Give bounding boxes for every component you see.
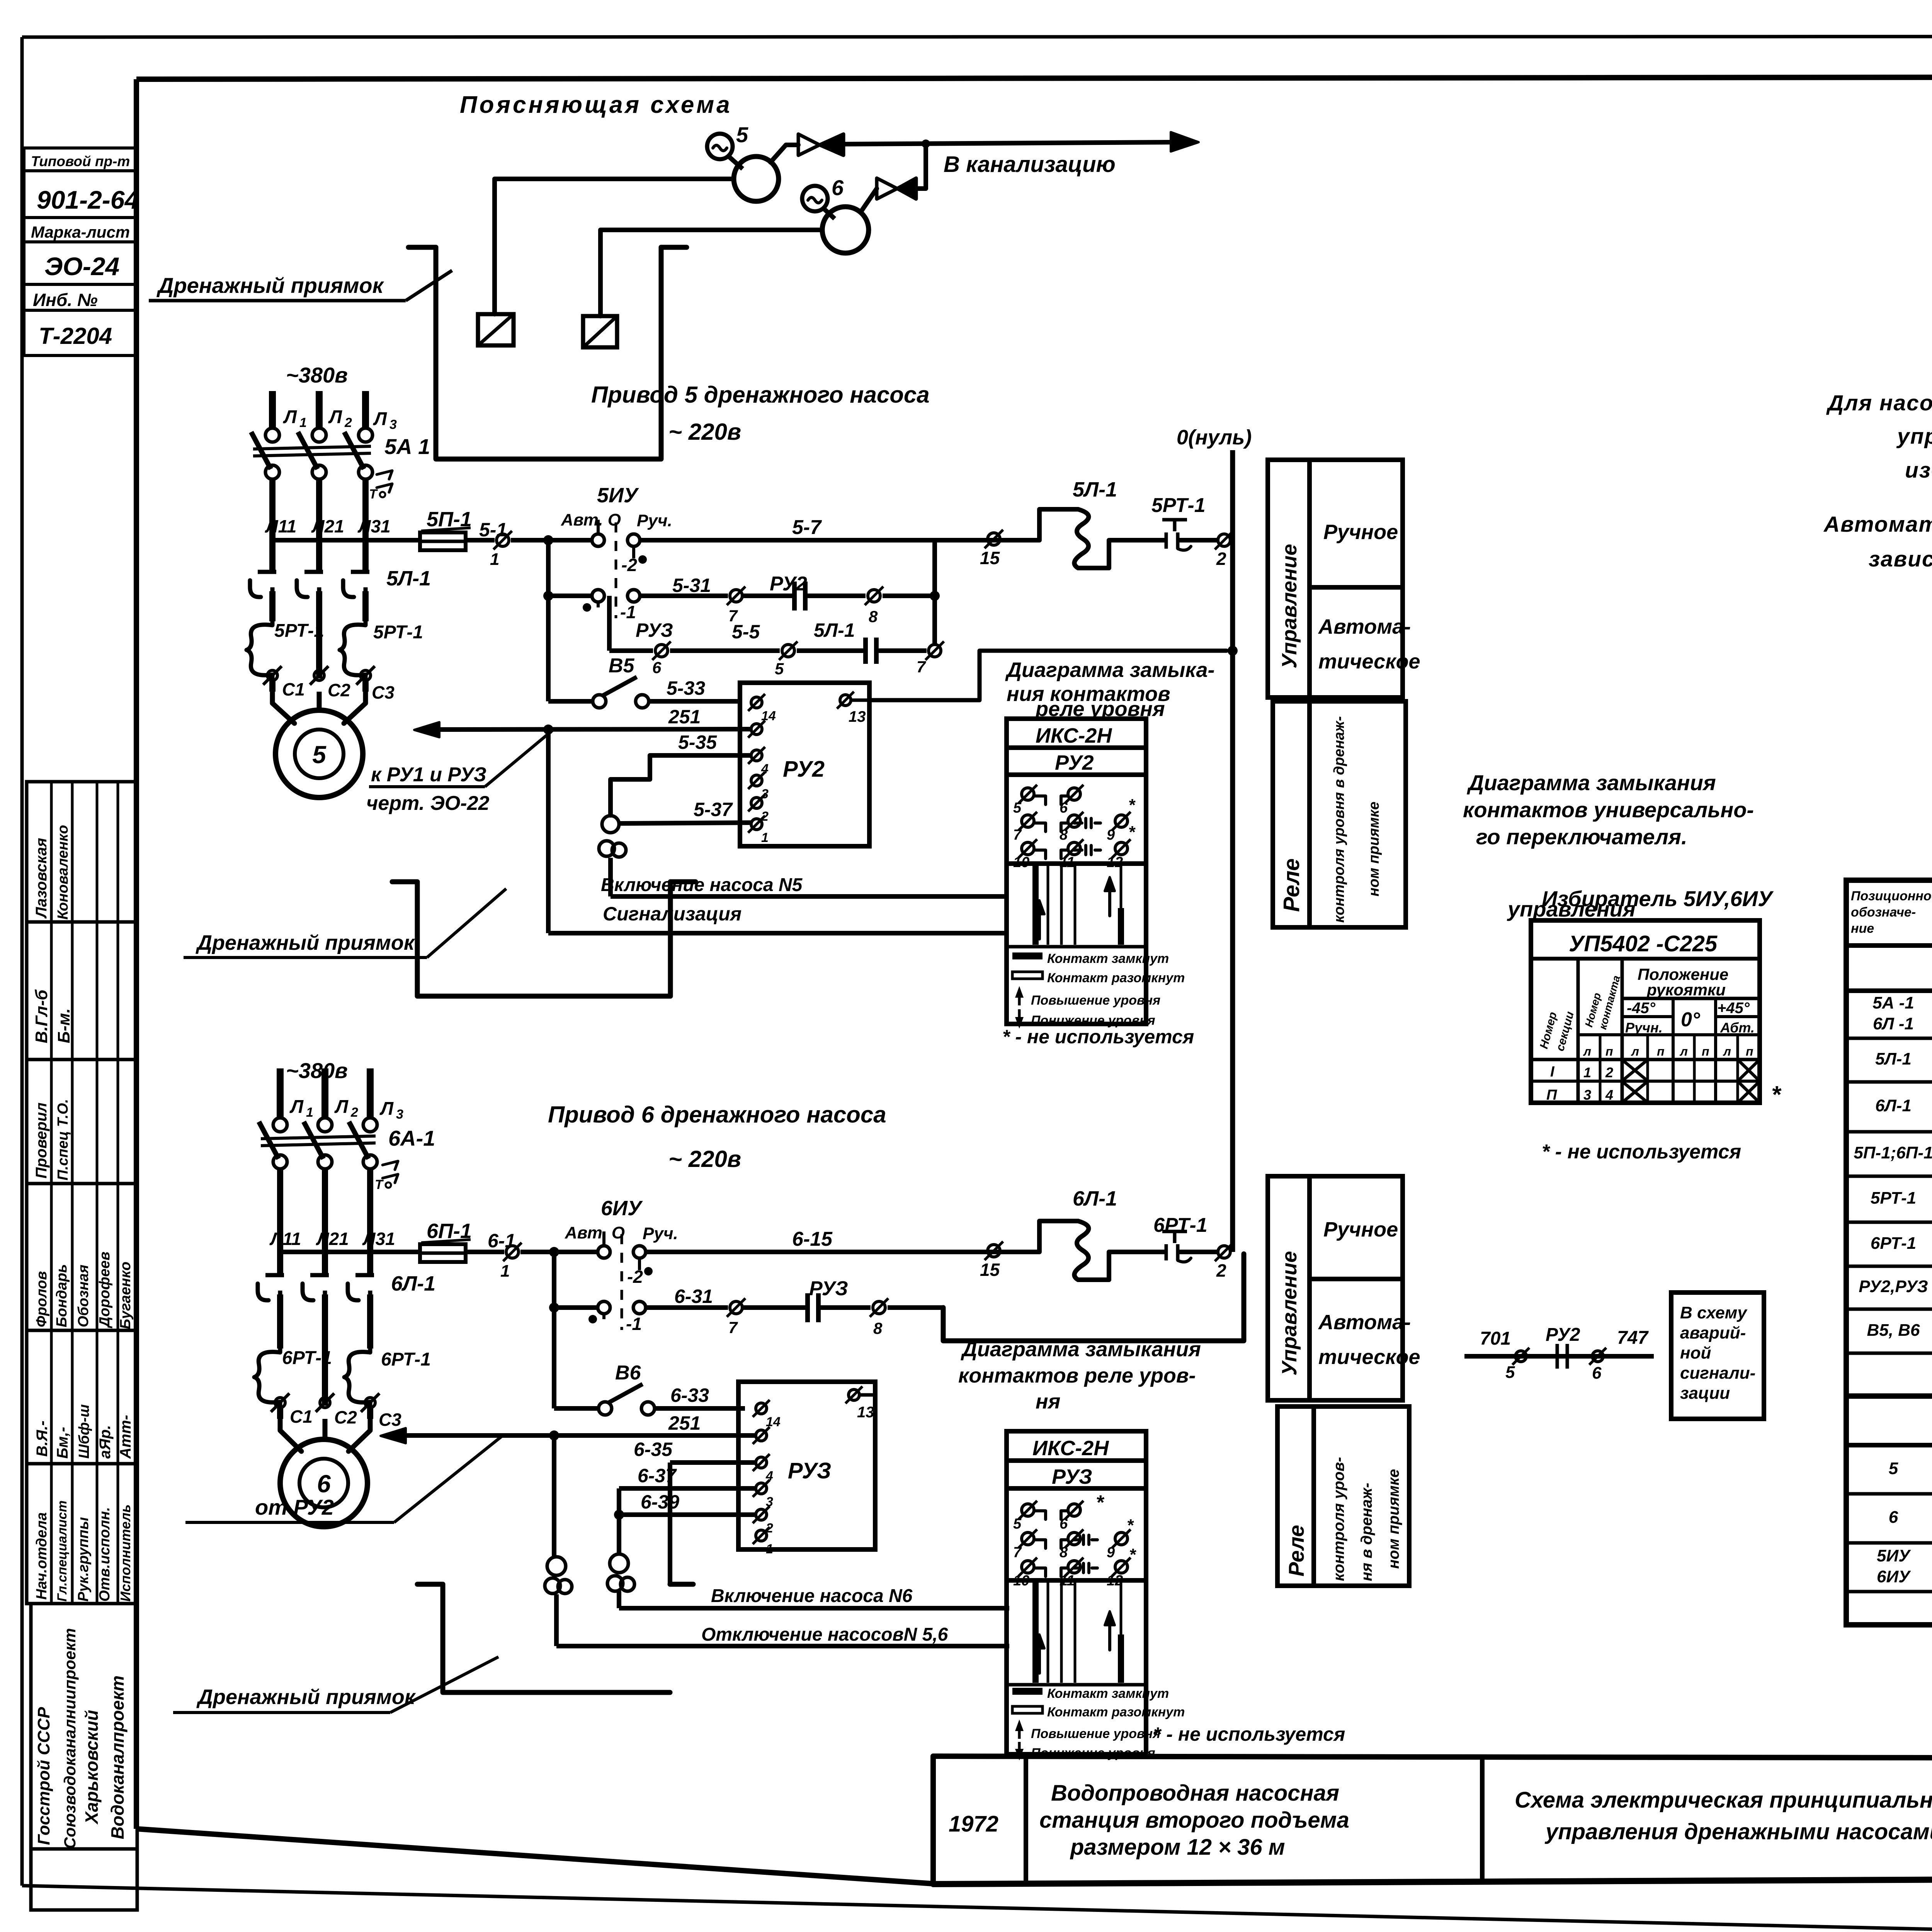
junction null and pin13 link drive 5 xyxy=(1228,646,1238,656)
terminal 2 drive 5 (to null) xyxy=(1215,531,1233,569)
РУ2 pins left xyxy=(748,694,776,845)
svg-text:1972: 1972 xyxy=(949,1811,998,1837)
fuse 5П-1 xyxy=(420,508,472,550)
svg-text:5-7: 5-7 xyxy=(792,516,822,539)
wire 5-1 to selector xyxy=(511,538,592,543)
svg-text:Обозная: Обозная xyxy=(75,1265,92,1327)
svg-text:7: 7 xyxy=(1013,827,1022,843)
svg-text:РУ2: РУ2 xyxy=(1055,751,1094,774)
svg-text:5П-1;6П-1: 5П-1;6П-1 xyxy=(1854,1143,1932,1162)
pipe pump5 to sewer xyxy=(770,145,798,162)
svg-text:Отключение насосовN 5,6: Отключение насосовN 5,6 xyxy=(701,1624,948,1645)
pump 6 circle xyxy=(822,207,869,253)
svg-text:6-1: 6-1 xyxy=(488,1230,515,1252)
svg-text:С2: С2 xyxy=(334,1407,357,1427)
svg-text:тическое: тическое xyxy=(1318,1345,1420,1369)
РУ2 pin 13 xyxy=(837,692,869,725)
svg-text:Л: Л xyxy=(373,409,387,429)
svg-text:5-35: 5-35 xyxy=(678,731,717,753)
electrode circles pair B drive 6 xyxy=(607,1554,634,1591)
svg-text:6РТ-1: 6РТ-1 xyxy=(1871,1234,1916,1253)
svg-text:6-35: 6-35 xyxy=(634,1439,673,1460)
stamp field 901-2-64 xyxy=(24,171,139,218)
drain pit drive 6 xyxy=(417,1584,693,1692)
svg-text:Ручн.: Ручн. xyxy=(1625,1020,1663,1036)
wire fuse to contact 6-1 xyxy=(466,1250,504,1254)
motor terminals C1 C2 C3 drive 5 xyxy=(263,666,395,702)
svg-text:В5, В6: В5, В6 xyxy=(1867,1321,1920,1340)
pipe pump5 suction xyxy=(495,179,734,314)
drain pit drive 5 xyxy=(392,882,696,996)
svg-text:рукоятки: рукоятки xyxy=(1646,981,1726,999)
svg-text:Шбф-ш: Шбф-ш xyxy=(76,1404,92,1459)
svg-text:5: 5 xyxy=(312,741,327,769)
svg-text:5ИУ: 5ИУ xyxy=(597,484,639,507)
electrode circles pair A drive 6 xyxy=(545,1435,572,1594)
svg-text:5РТ-1: 5РТ-1 xyxy=(1151,494,1206,517)
svg-text:Т-2204: Т-2204 xyxy=(39,323,112,349)
svg-text:РУ2: РУ2 xyxy=(1546,1325,1580,1345)
svg-text:ной: ной xyxy=(1680,1344,1711,1362)
svg-text:5: 5 xyxy=(736,122,748,147)
svg-text:5Л-1: 5Л-1 xyxy=(814,619,855,641)
stamp field Инв № xyxy=(24,284,135,310)
pump 5 circle xyxy=(734,156,779,201)
ИКС-2Н box drive 6 xyxy=(1007,1431,1146,1754)
wire 6-15 xyxy=(646,1228,1039,1252)
svg-text:Дренажный приямок: Дренажный приямок xyxy=(196,931,415,954)
svg-text:5РТ-1: 5РТ-1 xyxy=(373,622,423,643)
null vertical wire xyxy=(1230,450,1235,1252)
check valve 2 xyxy=(877,178,916,199)
svg-text:Позиционное: Позиционное xyxy=(1851,889,1932,903)
svg-text:ня: ня xyxy=(1036,1390,1060,1413)
РУЗ pins left xyxy=(753,1400,781,1556)
control bus drive 5 xyxy=(272,538,420,543)
svg-text:5: 5 xyxy=(775,660,784,678)
contact terminal 8 row2 drive 6 xyxy=(870,1298,943,1337)
wrap wire row2 to null drive 6 xyxy=(943,1254,1244,1341)
svg-text:10: 10 xyxy=(1013,854,1029,871)
pump 6 motor symbol xyxy=(802,175,844,219)
РУЗ contact diagram circles xyxy=(1013,1492,1136,1589)
svg-text:станция второго подъема: станция второго подъема xyxy=(1039,1808,1349,1833)
svg-text:Контакт замкнут: Контакт замкнут xyxy=(1047,951,1169,966)
junction drive6 row1 xyxy=(549,1247,559,1257)
stamp field Марка-лист xyxy=(24,218,135,242)
drain pit (explanatory) xyxy=(408,247,687,459)
svg-text:черт. ЭО-22: черт. ЭО-22 xyxy=(366,792,490,815)
stamp field ЭО-24 xyxy=(24,242,135,284)
svg-text:251: 251 xyxy=(668,1412,701,1434)
svg-text:6Л-1: 6Л-1 xyxy=(1073,1187,1117,1210)
svg-text:ном приямке: ном приямке xyxy=(1366,802,1382,896)
wire 5-7 xyxy=(640,516,1039,540)
svg-text:-1: -1 xyxy=(620,602,636,622)
svg-text:Проверил: Проверил xyxy=(33,1102,50,1179)
РУ2 contact diagram circles xyxy=(1013,785,1136,871)
svg-text:Харьковский: Харьковский xyxy=(82,1710,102,1825)
svg-text:л: л xyxy=(1723,1044,1731,1058)
svg-text:Л: Л xyxy=(379,1099,394,1119)
svg-text:Схема электрическая принц: Схема электрическая принципиальная xyxy=(1515,1787,1932,1813)
table row 5Л-1 пускатель магнитный ПМЕ-212 xyxy=(1846,1049,1932,1082)
svg-text:Повышение уровня: Повышение уровня xyxy=(1031,993,1160,1008)
svg-text:6: 6 xyxy=(832,175,844,200)
svg-text:1: 1 xyxy=(490,550,499,569)
svg-text:Отв.исполн.: Отв.исполн. xyxy=(97,1507,113,1602)
thermal contact 5РТ-1 in control drive 5 xyxy=(1144,494,1217,550)
wire 6-35 xyxy=(634,1439,756,1584)
svg-text:-2: -2 xyxy=(627,1267,643,1287)
svg-text:В6: В6 xyxy=(615,1362,641,1384)
РУ2 legend xyxy=(1012,951,1185,1029)
svg-text:Авт. О: Авт. О xyxy=(561,510,621,529)
wire 6-1 to selector xyxy=(520,1250,598,1254)
svg-text:Типовой пр-т: Типовой пр-т xyxy=(31,153,130,169)
svg-text:9: 9 xyxy=(1107,827,1115,843)
svg-text:РУ2: РУ2 xyxy=(770,573,807,595)
parts table frame xyxy=(1846,880,1932,1625)
svg-text:Автома-: Автома- xyxy=(1318,615,1411,638)
svg-text:Л21: Л21 xyxy=(316,1229,349,1249)
svg-text:2: 2 xyxy=(344,415,352,430)
svg-text:Бондарь: Бондарь xyxy=(54,1264,70,1327)
svg-text:В.Я.-: В.Я.- xyxy=(34,1420,51,1457)
relay box РУЗ xyxy=(738,1382,875,1549)
svg-text:Дорофеев: Дорофеев xyxy=(97,1252,113,1328)
svg-text:~380в: ~380в xyxy=(286,363,348,387)
svg-text:Ручное: Ручное xyxy=(1323,520,1398,544)
selector switch 6ИУ xyxy=(565,1197,678,1334)
svg-text:РУЗ: РУЗ xyxy=(636,619,673,641)
wire 251 drive 6 with arrow xyxy=(381,1412,756,1443)
svg-text:л: л xyxy=(1631,1044,1639,1058)
svg-text:сигнали-: сигнали- xyxy=(1680,1364,1755,1383)
explanation paragraph 2 xyxy=(1823,512,1932,571)
svg-text:В.Гл-б: В.Гл-б xyxy=(32,989,51,1043)
svg-text:Нач.отдела: Нач.отдела xyxy=(34,1512,50,1600)
wire fuse to contact 5-1 xyxy=(466,538,495,543)
svg-text:Водоканалпроект: Водоканалпроект xyxy=(107,1675,128,1839)
svg-text:П.спец Т.О.: П.спец Т.О. xyxy=(55,1099,71,1180)
ИКС-2Н box drive 5 xyxy=(1007,719,1146,1024)
stamp block organization xyxy=(31,1604,137,1849)
svg-text:2: 2 xyxy=(1605,1065,1613,1080)
svg-text:РУ2: РУ2 xyxy=(783,757,825,782)
svg-text:Дренажный приямок: Дренажный приямок xyxy=(196,1685,416,1709)
svg-text:5РТ-1: 5РТ-1 xyxy=(1871,1189,1916,1207)
svg-text:5Л-1: 5Л-1 xyxy=(1875,1049,1912,1068)
stamp block roles xyxy=(27,1464,137,1604)
svg-text:1: 1 xyxy=(766,1542,773,1556)
svg-text:3: 3 xyxy=(396,1107,403,1122)
svg-text:Включение насоса N5: Включение насоса N5 xyxy=(601,875,803,895)
svg-text:2: 2 xyxy=(350,1105,358,1120)
РУЗ pin 13 xyxy=(845,1386,875,1421)
svg-text:С1: С1 xyxy=(290,1406,313,1427)
switch B6 xyxy=(554,1308,745,1415)
foot valve 2 xyxy=(583,316,617,347)
wire Отключение насосов N5,6 xyxy=(556,1594,1009,1646)
pipe sewer main with arrow xyxy=(844,132,1199,151)
svg-text:*: * xyxy=(1096,1492,1105,1514)
svg-text:-1: -1 xyxy=(626,1314,642,1334)
pipe pump6 suction xyxy=(600,230,822,316)
svg-text:5-5: 5-5 xyxy=(732,621,760,643)
svg-text:С2: С2 xyxy=(328,680,350,700)
svg-text:5ИУ: 5ИУ xyxy=(1877,1546,1911,1565)
wire 6-39 xyxy=(614,1491,756,1520)
svg-text:П: П xyxy=(1546,1087,1557,1103)
svg-text:6ИУ: 6ИУ xyxy=(1877,1567,1911,1586)
svg-text:0°: 0° xyxy=(1681,1009,1701,1031)
svg-text:Л21: Л21 xyxy=(311,516,344,536)
wire row2 from junction drive 6 xyxy=(549,1252,598,1313)
svg-text:6Л -1: 6Л -1 xyxy=(1873,1014,1914,1033)
svg-text:Рук.группы: Рук.группы xyxy=(75,1517,92,1602)
box В схему аварийной сигнализации xyxy=(1671,1293,1764,1419)
svg-text:Реле: Реле xyxy=(1284,1525,1308,1577)
svg-text:Руч.: Руч. xyxy=(637,511,672,530)
svg-text:701: 701 xyxy=(1480,1328,1511,1349)
stamp block checked xyxy=(27,1060,137,1184)
svg-text:+45°: +45° xyxy=(1717,1000,1750,1017)
svg-text:л: л xyxy=(1679,1044,1688,1058)
svg-text:С3: С3 xyxy=(379,1410,401,1430)
Реле контроля box drive 5 xyxy=(1273,701,1406,927)
svg-text:Абт.: Абт. xyxy=(1720,1020,1755,1036)
selector table УП5402-С225 xyxy=(1531,920,1782,1108)
svg-text:размером 12 × 36 м: размером 12 × 36 м xyxy=(1070,1835,1285,1860)
relay contact РУ2 xyxy=(742,573,866,611)
motor 5 xyxy=(276,710,363,798)
svg-text:7: 7 xyxy=(1013,1544,1022,1561)
explanation paragraph 1 xyxy=(1826,391,1932,483)
motor 6 xyxy=(280,1439,367,1527)
svg-text:Фролов: Фролов xyxy=(34,1271,50,1327)
wire 5-31 row xyxy=(640,575,728,596)
svg-text:ня в дренаж-: ня в дренаж- xyxy=(1358,1483,1375,1581)
phase wires to contactor drive 5 xyxy=(265,479,391,572)
svg-text:1: 1 xyxy=(1583,1065,1591,1080)
stamp block bottom empty xyxy=(31,1849,137,1910)
svg-text:ние: ние xyxy=(1851,921,1874,936)
svg-text:ном приямке: ном приямке xyxy=(1385,1469,1402,1569)
svg-text:управления : автоматическое и: управления : автоматическое и ручное, вы… xyxy=(1896,424,1932,449)
wire row2 from junction drive 5 xyxy=(543,540,592,601)
table empty row ЩСУ end xyxy=(1846,1393,1932,1399)
svg-text:п: п xyxy=(1657,1044,1665,1058)
svg-text:Для насосов NN5,6 предусм: Для насосов NN5,6 предусматривается два … xyxy=(1826,391,1932,415)
wire vertical into pit drive 5 and Сигнализация wire xyxy=(548,730,1007,933)
svg-text:Л11: Л11 xyxy=(265,516,296,536)
svg-text:контроля уровня в дренаж-: контроля уровня в дренаж- xyxy=(1331,716,1347,923)
title block drawing name xyxy=(1515,1787,1932,1844)
svg-text:В канализацию: В канализацию xyxy=(944,152,1116,177)
РУЗ stripes area xyxy=(1007,1580,1146,1685)
table row В5 В6 выключатель пакетный xyxy=(1846,1310,1932,1353)
table row 5А-1 6Л-1 автоматический выключатель xyxy=(1846,993,1932,1038)
callout от РУ2 xyxy=(185,1436,502,1522)
svg-text:5-1: 5-1 xyxy=(479,519,507,541)
label Дренажный приямок (top) xyxy=(149,270,452,301)
selector switch 5ИУ xyxy=(561,484,672,622)
table row 6 А02-32-2 xyxy=(1846,1498,1932,1543)
svg-text:5Л-1: 5Л-1 xyxy=(386,567,431,590)
svg-text:Привод 6 дренажного насос: Привод 6 дренажного насоса xyxy=(548,1102,886,1128)
Реле контроля box drive 6 xyxy=(1277,1406,1409,1586)
table row 6Л-1 ПМЕ-112 xyxy=(1846,1052,1932,1132)
svg-text:РУЗ: РУЗ xyxy=(788,1458,831,1483)
svg-text:Л: Л xyxy=(334,1097,349,1117)
svg-text:управления: управления xyxy=(1507,897,1636,921)
svg-text:Исполнитель: Исполнитель xyxy=(117,1504,133,1602)
contact terminal 8 row2 drive 5 xyxy=(865,587,935,626)
svg-text:аЯр.: аЯр. xyxy=(97,1425,114,1459)
svg-text:РУЗ: РУЗ xyxy=(809,1277,848,1300)
svg-text:от РУ2: от РУ2 xyxy=(255,1495,334,1519)
svg-text:ИКС-2Н: ИКС-2Н xyxy=(1036,724,1112,747)
wire 6-37 xyxy=(619,1465,756,1555)
svg-text:* - не используется: * - не используется xyxy=(1002,1026,1194,1048)
svg-text:В5: В5 xyxy=(609,655,635,677)
svg-text:Дренажный приямок: Дренажный приямок xyxy=(156,273,384,298)
svg-text:747: 747 xyxy=(1617,1328,1649,1348)
svg-text:ЭО-24: ЭО-24 xyxy=(44,252,119,281)
contactor main contacts 5Л-1 xyxy=(250,567,431,597)
svg-text:15: 15 xyxy=(980,1260,1000,1280)
svg-text:С3: С3 xyxy=(372,682,395,702)
svg-text:Авт. О: Авт. О xyxy=(565,1223,625,1242)
svg-text:8: 8 xyxy=(869,607,878,626)
diagram title Диаграмма замыкания (drive 6) xyxy=(958,1338,1201,1413)
title block frame xyxy=(933,1756,1932,1884)
svg-text:*: * xyxy=(1127,1516,1134,1535)
svg-text:Л: Л xyxy=(289,1097,304,1117)
svg-text:6-33: 6-33 xyxy=(670,1384,709,1406)
wire electrodes to stripes drive 5 (Включение насоса N5) xyxy=(611,858,1007,896)
circuit breaker 6А-1 xyxy=(259,1118,435,1192)
svg-text:5РТ-1: 5РТ-1 xyxy=(274,621,324,641)
svg-text:6: 6 xyxy=(317,1470,331,1498)
stamp block names xyxy=(27,1184,137,1330)
thermal relay elements 5РТ-1 drive 5 xyxy=(247,621,423,692)
svg-text:го переключателя.: го переключателя. xyxy=(1476,825,1687,849)
label Дренажный приямок drive 5 xyxy=(184,889,506,957)
svg-text:15: 15 xyxy=(980,548,1000,568)
switch B5 xyxy=(548,596,739,708)
svg-text:Привод 5 дренажного насоса: Привод 5 дренажного насоса xyxy=(591,382,930,408)
terminal 7 on junction vertical drive 5 xyxy=(917,641,944,676)
circuit breaker 5А1 xyxy=(251,428,430,502)
svg-text:УП5402 -С225: УП5402 -С225 xyxy=(1569,931,1718,956)
svg-text:~ 220в: ~ 220в xyxy=(668,1146,741,1172)
svg-text:* - не используется: * - не используется xyxy=(1153,1723,1345,1745)
svg-text:*: * xyxy=(1771,1082,1782,1108)
svg-text:п: п xyxy=(1605,1044,1613,1058)
stamp block signatures 2 xyxy=(27,1330,137,1464)
svg-text:Бм,-: Бм,- xyxy=(54,1427,71,1459)
svg-text:Диаграмма замыкания: Диаграмма замыкания xyxy=(1467,770,1716,795)
svg-text:обозначе-: обозначе- xyxy=(1851,905,1916,920)
diagram title Диаграмма замыкания (drive 5) xyxy=(1005,658,1214,721)
svg-text:л: л xyxy=(1583,1044,1591,1058)
stamp block surveyors xyxy=(27,782,137,922)
table row 6РТ-1 ТРН-8 xyxy=(1846,1234,1932,1266)
svg-text:1: 1 xyxy=(306,1105,313,1120)
label Дренажный приямок drive 6 xyxy=(173,1657,498,1713)
table row 5 электродвигатель А02-42-2 xyxy=(1846,1449,1932,1494)
svg-text:-45°: -45° xyxy=(1627,1000,1656,1017)
row3 РУЗ 5-5 5Л-1 drive 5 xyxy=(609,596,927,678)
callout к РУ1 и РУЗ черт.ЭО-22 xyxy=(366,730,553,815)
wire 251 drive 5 with arrow xyxy=(414,706,751,737)
svg-text:901-2-64: 901-2-64 xyxy=(37,185,139,214)
svg-text:10: 10 xyxy=(1013,1573,1029,1589)
stamp block signatures 1 xyxy=(27,922,137,1060)
table row 5П-1 6П-1 предохранитель Пр-2 xyxy=(1846,1134,1932,1176)
terminal 15 drive 6 xyxy=(980,1242,1003,1280)
svg-text:Коноваленко: Коноваленко xyxy=(55,825,71,920)
pump 5 motor symbol xyxy=(707,122,748,169)
svg-text:6: 6 xyxy=(1592,1364,1602,1383)
svg-text:13: 13 xyxy=(857,1404,874,1421)
svg-text:Водопроводная насосная: Водопроводная насосная xyxy=(1051,1781,1339,1806)
svg-text:1: 1 xyxy=(761,830,769,845)
svg-text:9: 9 xyxy=(1107,1544,1115,1561)
svg-text:Л11: Л11 xyxy=(269,1229,301,1249)
svg-text:6А-1: 6А-1 xyxy=(388,1126,435,1150)
parts table header row xyxy=(1846,880,1932,946)
alarm circuit fragment 701 РУ2 747 xyxy=(1464,1325,1654,1383)
svg-text:Повышение уровня: Повышение уровня xyxy=(1031,1726,1160,1741)
contact terminal 7 row2 drive 6 xyxy=(727,1298,745,1337)
svg-text:Контакт разомкнут: Контакт разомкнут xyxy=(1047,971,1185,985)
contactor main contacts 6Л-1 xyxy=(258,1272,435,1300)
svg-text:Союзводоканалниипроект: Союзводоканалниипроект xyxy=(61,1628,79,1849)
wire pin13 to null drive 5 xyxy=(869,651,1226,700)
svg-text:6-39: 6-39 xyxy=(641,1491,679,1513)
svg-text:Поясняющая схема: Поясняющая схема xyxy=(460,92,732,118)
svg-text:контактов реле уров-: контактов реле уров- xyxy=(958,1364,1196,1387)
svg-text:к РУ1 и РУЗ: к РУ1 и РУЗ xyxy=(371,764,486,786)
section row Щит станции управления ЩСУ xyxy=(1846,961,1932,991)
thermal contact 6РТ-1 in control drive 6 xyxy=(1144,1214,1217,1262)
svg-text:тическое: тическое xyxy=(1318,650,1420,673)
coil 6Л-1 xyxy=(1039,1187,1144,1280)
svg-text:Реле: Реле xyxy=(1279,859,1304,912)
svg-text:Инб. №: Инб. № xyxy=(33,290,98,310)
wire 5-35 xyxy=(611,731,751,815)
svg-text:*: * xyxy=(1128,823,1136,842)
svg-text:5Л-1: 5Л-1 xyxy=(1073,478,1117,501)
wire Включение насоса N6 xyxy=(619,1591,1009,1608)
wires into motor drive 6 xyxy=(280,1419,370,1451)
svg-text:Т: Т xyxy=(375,1177,384,1192)
label Избиратель 5ИУ 6ИУ управления xyxy=(1507,886,1774,921)
svg-text:5-31: 5-31 xyxy=(672,575,711,596)
svg-text:6РТ-1: 6РТ-1 xyxy=(282,1348,332,1368)
svg-text:Автоматическое управление ос: Автоматическое управление осуществляется… xyxy=(1823,512,1932,537)
svg-text:4: 4 xyxy=(1605,1087,1613,1103)
РУЗ legend xyxy=(1012,1686,1185,1760)
svg-text:7: 7 xyxy=(917,658,926,676)
junction row2 to vertical drive 5 xyxy=(930,540,940,645)
svg-text:Руч.: Руч. xyxy=(643,1224,678,1243)
svg-text:ИКС-2Н: ИКС-2Н xyxy=(1032,1437,1109,1460)
svg-text:Контакт разомкнут: Контакт разомкнут xyxy=(1047,1705,1185,1719)
